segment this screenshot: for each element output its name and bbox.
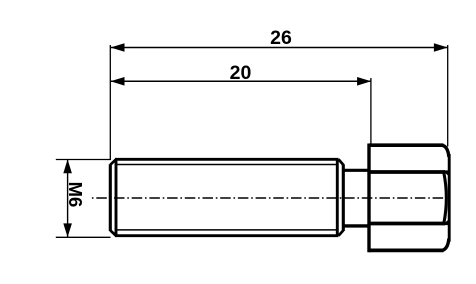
left chamfer diagonal bottom: [110, 230, 116, 235]
right chamfer diagonal top: [339, 159, 344, 165]
M6 dimension line with arrows: [63, 159, 72, 237]
hex head right end face: [448, 154, 451, 242]
left chamfer line: [115, 159, 118, 235]
neck top edge: [343, 169, 369, 172]
neck bottom edge: [343, 224, 369, 227]
extension line for 20 (head left face): [370, 78, 372, 144]
hex edge line lower: [369, 222, 445, 226]
hex edge line upper: [369, 170, 445, 174]
right chamfer diagonal bottom: [339, 230, 344, 235]
svg-text:20: 20: [230, 62, 252, 84]
dimension line 26: [111, 43, 448, 52]
dimension line 20: [111, 77, 372, 86]
shaft bottom outline: [115, 234, 339, 237]
hex middle face chamfer arc: [444, 173, 447, 224]
hex chamfer junction lower: [442, 218, 450, 225]
hex head bottom-right corner chamfer arc: [442, 239, 449, 251]
M6 extension line top: [56, 159, 111, 161]
thread root line top: [116, 164, 337, 166]
extension line left (bolt end): [109, 45, 111, 160]
hex head top-right corner chamfer arc: [442, 145, 449, 157]
svg-text:26: 26: [270, 27, 292, 49]
shaft left end face: [109, 164, 112, 231]
right chamfer line: [336, 159, 339, 235]
shaft top outline: [115, 158, 339, 161]
hex head top edge: [369, 143, 444, 147]
thread root line bottom: [116, 229, 337, 231]
svg-text:M6: M6: [65, 182, 86, 208]
hex chamfer junction upper: [442, 170, 450, 177]
hex head bottom edge: [369, 248, 444, 252]
centerline (bolt axis, dash-dot): [92, 197, 443, 199]
hex head left face: [367, 144, 370, 253]
shaft right end face: [342, 164, 345, 231]
left chamfer diagonal top: [110, 159, 116, 165]
M6 extension line bottom: [56, 236, 111, 238]
extension line right for 26 (head end face): [447, 45, 449, 147]
